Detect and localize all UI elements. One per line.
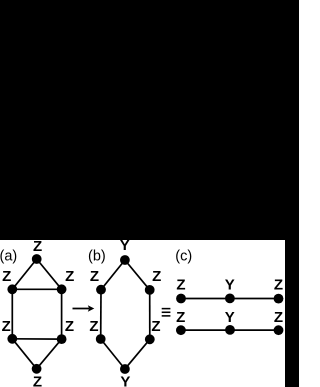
edge a: lower-left to bottom	[12, 339, 36, 369]
svg-text:(b): (b)	[88, 248, 106, 264]
edge a: upper-left to upper-right	[12, 288, 61, 290]
vertex a-top	[32, 254, 42, 264]
svg-text:Z: Z	[274, 309, 283, 326]
equivalence sign between (b) and (c)	[162, 308, 171, 310]
svg-text:Z: Z	[151, 318, 160, 335]
edge a: lower-right to bottom	[37, 339, 62, 369]
svg-text:Z: Z	[90, 268, 99, 285]
edge b: lower-left to bottom	[101, 339, 125, 369]
edge b: top to upper-left	[101, 260, 125, 290]
svg-text:Z: Z	[2, 318, 11, 335]
vertex a-lower-right	[57, 334, 67, 344]
edge b: upper-right to lower-right	[149, 290, 151, 339]
vertex a-upper-left	[7, 284, 17, 294]
edge b: lower-right to bottom	[125, 339, 150, 369]
vertex c2-left	[176, 325, 186, 335]
svg-text:Z: Z	[2, 268, 11, 285]
edge a: lower-left to lower-right	[12, 338, 61, 340]
vertex b-bottom	[120, 364, 130, 374]
vertex b-lower-left	[96, 334, 106, 344]
black top band	[0, 0, 299, 240]
vertex b-upper-right	[145, 285, 155, 295]
svg-text:Z: Z	[176, 309, 185, 326]
edge b: upper-left to lower-left	[100, 290, 102, 339]
vertex a-upper-right	[57, 284, 67, 294]
edge a: upper-right to lower-right	[61, 289, 63, 339]
vertex c1-right	[274, 294, 284, 304]
svg-text:Z: Z	[152, 268, 161, 285]
vertex b-lower-right	[145, 334, 155, 344]
svg-text:Z: Z	[274, 277, 283, 294]
edge a: top to upper-right	[37, 259, 62, 289]
svg-text:Z: Z	[89, 318, 98, 335]
edge c: chain 2	[181, 329, 279, 331]
vertex c2-right	[274, 325, 284, 335]
svg-text:Z: Z	[33, 374, 42, 387]
svg-text:(c): (c)	[175, 248, 192, 264]
svg-text:Y: Y	[120, 237, 130, 254]
svg-text:Y: Y	[225, 309, 235, 326]
svg-text:Z: Z	[65, 268, 74, 285]
vertex b-top	[120, 255, 130, 265]
svg-text:(a): (a)	[0, 248, 17, 264]
svg-text:Y: Y	[225, 277, 235, 294]
edge a: upper-left to lower-left	[11, 289, 13, 339]
vertex c1-middle	[225, 294, 235, 304]
edge b: top to upper-right	[125, 260, 150, 290]
vertex a-lower-left	[7, 334, 17, 344]
edge c: chain 1	[181, 298, 279, 300]
vertex b-upper-left	[96, 285, 106, 295]
vertex a-bottom	[32, 364, 42, 374]
arrow between (a) and (b)	[73, 308, 90, 310]
edge a: top to upper-left	[12, 259, 36, 289]
svg-text:Z: Z	[33, 238, 42, 255]
svg-text:Y: Y	[120, 374, 130, 387]
black right strip	[285, 240, 299, 387]
svg-text:Z: Z	[65, 318, 74, 335]
vertex c1-left	[176, 294, 186, 304]
svg-text:Z: Z	[176, 277, 185, 294]
vertex c2-middle	[225, 325, 235, 335]
